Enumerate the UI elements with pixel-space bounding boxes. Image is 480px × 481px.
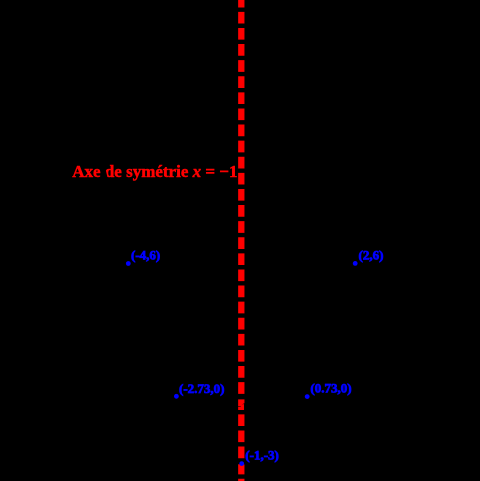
svg-text:Axe de symétrie x = −1: Axe de symétrie x = −1	[72, 162, 237, 181]
svg-text:(-1,-3): (-1,-3)	[245, 448, 279, 463]
point (-2.73,0)	[174, 394, 179, 399]
svg-text:(2,6): (2,6)	[359, 248, 384, 263]
y axis (black, invisible)	[278, 0, 281, 481]
svg-text:(-2.73,0): (-2.73,0)	[179, 381, 225, 396]
point (2,6)	[353, 261, 358, 266]
x axis (black, invisible on black background, occludes dash)	[0, 396, 480, 399]
svg-text:(0.73,0): (0.73,0)	[310, 381, 351, 396]
svg-text:−1: −1	[235, 400, 248, 414]
svg-text:(-4,6): (-4,6)	[131, 248, 160, 263]
vertex point (-1,-3)	[239, 461, 244, 466]
point (-4,6)	[126, 261, 131, 266]
axis of symmetry: red dashed vertical line x=-1	[238, 0, 244, 481]
point (0.73,0)	[305, 394, 310, 399]
